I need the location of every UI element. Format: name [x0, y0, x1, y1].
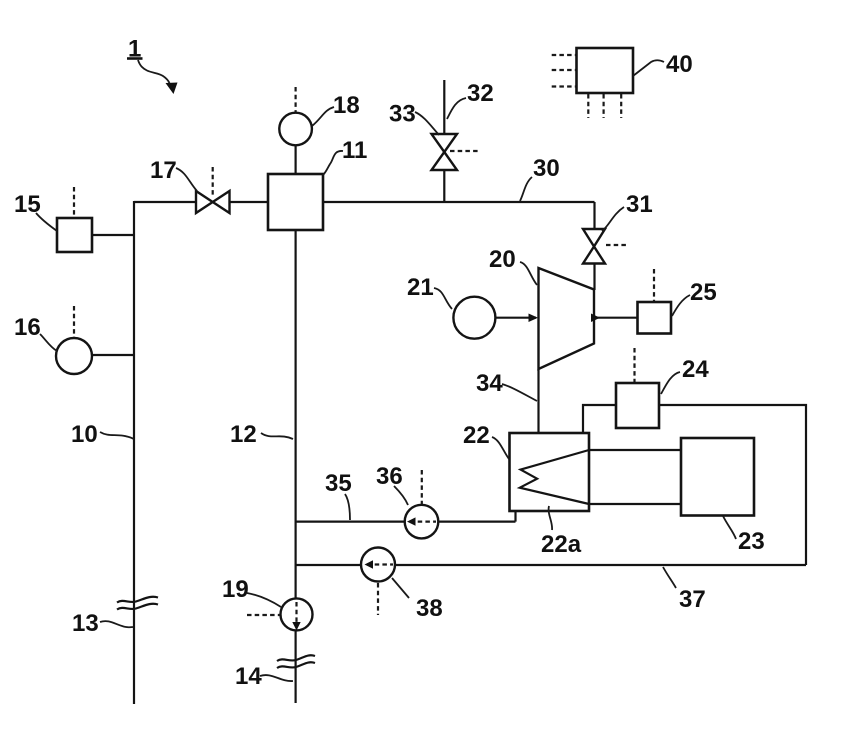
- loop wire: box 24 right, down the far right side: [659, 405, 806, 565]
- control line below pump 38: [377, 583, 379, 615]
- sensor circle 16: [56, 338, 92, 374]
- box 25: [638, 302, 672, 334]
- control line above box 24: [633, 348, 635, 382]
- leader 24: [661, 372, 680, 394]
- leader 25: [672, 295, 690, 316]
- pipe break 13: [117, 597, 158, 610]
- leader 22: [492, 437, 509, 459]
- valve 33 (on vent line 32): [432, 134, 458, 170]
- leader 14: [260, 675, 293, 681]
- svg-text:37: 37: [679, 586, 706, 613]
- valve 31: [583, 229, 605, 264]
- svg-text:33: 33: [389, 101, 416, 128]
- leader 40: [633, 60, 664, 76]
- svg-text:14: 14: [235, 663, 262, 690]
- svg-text:22: 22: [463, 422, 490, 449]
- line 35 (pipe 12 to HX 22): [296, 511, 516, 522]
- generator circle 21: [453, 297, 495, 339]
- wire: HX 22 to box 23 (bottom): [589, 503, 681, 505]
- control lines left of box 40: [552, 55, 576, 87]
- wire: box 15 to pipe 10: [92, 234, 134, 236]
- box 23: [681, 438, 754, 516]
- control line above box 15: [73, 187, 75, 217]
- svg-text:23: 23: [738, 528, 765, 555]
- svg-text:30: 30: [533, 155, 560, 182]
- control lines below box 40: [588, 94, 621, 118]
- wire: sensor 16 to pipe 10: [92, 354, 134, 356]
- svg-text:24: 24: [682, 356, 709, 383]
- vent line through valve 33: [443, 80, 445, 202]
- control line right of valve 31: [606, 244, 629, 246]
- turbine 20: [539, 268, 595, 369]
- controller box 40: [577, 48, 634, 93]
- svg-text:20: 20: [489, 246, 516, 273]
- loop wire: HX 22 top to box 24: [583, 405, 616, 433]
- svg-text:36: 36: [376, 463, 403, 490]
- wire: sensor 18 to tank 11: [295, 145, 297, 174]
- pipe 10 (vertical): [133, 201, 135, 704]
- leader 19: [247, 593, 281, 607]
- leader 11: [323, 151, 343, 175]
- leader 12: [261, 433, 293, 439]
- leader 10: [100, 432, 134, 439]
- svg-text:31: 31: [626, 191, 653, 218]
- pump 19 (on pipe 12): [281, 598, 313, 630]
- leader 36: [394, 486, 408, 505]
- leader 33: [415, 112, 439, 135]
- label 1 (underlined): [127, 36, 143, 63]
- leader 18: [312, 107, 334, 126]
- leader 15: [36, 213, 57, 231]
- line 34 (turbine exhaust down to heat exchanger 22): [537, 369, 539, 433]
- pipe 12 (vertical): [295, 230, 297, 703]
- wire: valve 31 to turbine inlet: [593, 264, 595, 291]
- leader 21: [434, 288, 452, 309]
- heating coil 22a (zigzag): [520, 450, 589, 504]
- control line right of valve 33: [450, 150, 480, 152]
- leader 32: [447, 98, 466, 119]
- box 15: [57, 218, 92, 252]
- svg-text:32: 32: [467, 80, 494, 107]
- leader 37: [663, 567, 676, 588]
- heat exchanger 22: [510, 433, 590, 511]
- svg-text:40: 40: [666, 51, 693, 78]
- svg-text:22a: 22a: [541, 531, 582, 558]
- sensor circle 18: [279, 113, 312, 146]
- svg-text:16: 16: [14, 314, 41, 341]
- control line above sensor 16: [73, 306, 75, 337]
- leader 16: [40, 334, 57, 351]
- pipe break 14: [277, 655, 315, 668]
- leader 31: [602, 207, 624, 231]
- leader 17: [176, 168, 197, 191]
- leader 38: [392, 578, 409, 598]
- svg-text:13: 13: [72, 610, 99, 637]
- pump 38: [361, 548, 395, 582]
- leader 13: [100, 621, 133, 627]
- svg-text:18: 18: [333, 92, 360, 119]
- line 37 (bottom return line): [296, 564, 806, 566]
- svg-text:11: 11: [342, 137, 367, 164]
- valve 17: [196, 191, 230, 213]
- wire: HX 22 to box 23 (top): [589, 449, 681, 451]
- tank 11: [268, 174, 323, 230]
- leader 30: [520, 177, 532, 201]
- control line above box 25: [653, 269, 655, 301]
- box 24: [616, 383, 659, 428]
- leader arrow from label 1: [138, 60, 178, 94]
- svg-text:38: 38: [416, 595, 443, 622]
- svg-text:17: 17: [150, 157, 177, 184]
- leader 34: [502, 384, 537, 401]
- svg-text:25: 25: [690, 279, 717, 306]
- shaft: turbine to box 25: [594, 317, 638, 319]
- leader 35: [345, 494, 350, 520]
- svg-text:19: 19: [222, 576, 249, 603]
- svg-text:10: 10: [71, 421, 98, 448]
- leader 22a: [549, 506, 553, 530]
- wire: valve 17 to tank 11: [229, 201, 269, 203]
- arrowhead at turbine outlet shaft: [591, 314, 600, 323]
- svg-text:21: 21: [407, 274, 434, 301]
- svg-text:12: 12: [230, 421, 257, 448]
- pump 36: [405, 505, 439, 539]
- wire: main horizontal line from pipe 10 to valve 17: [134, 201, 197, 203]
- control line above pump 36: [421, 470, 423, 504]
- leader 20: [520, 262, 537, 285]
- control line left of pump 19: [247, 614, 280, 616]
- control line above sensor 18: [295, 87, 297, 112]
- shaft: circle 21 to turbine: [495, 317, 536, 319]
- leader 23: [723, 516, 736, 539]
- arrowhead into turbine: [529, 314, 539, 323]
- svg-text:34: 34: [476, 370, 503, 397]
- line 30 (from tank 11 to corner and down to valve 31): [323, 202, 595, 230]
- control line above valve 17: [212, 167, 214, 196]
- svg-text:35: 35: [325, 470, 352, 497]
